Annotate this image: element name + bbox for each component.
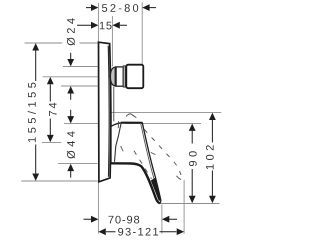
phantom dashed line B (open position left edge) [134,151,152,179]
dimension O24 [67,18,75,100]
handle crease line [115,123,122,162]
dimension 102 right [206,113,216,204]
dimension 70-98 bottom [84,216,178,224]
wire extension line E11 sleeve top (y=66.5) [63,66,98,68]
wire extension line E10 escutcheon bottom (y=181) [21,180,98,182]
handle base bottom edge thick [111,163,160,203]
wire extension line E1b left (x=98.4 bottom) [97,182,99,233]
wire extension line E2 (x=112.4) [111,16,113,66]
escutcheon back chamfer line [107,46,110,177]
dimension 155/155 [28,43,39,181]
wire extension line E8 bottom shared (y=203.5) [160,203,220,205]
washer band [123,66,125,87]
cartridge housing box [126,65,143,89]
pivot tick [117,121,119,128]
escutcheon plate side view [99,42,111,182]
hub collar line behind escutcheon [113,87,115,122]
wire extension line E14 74-bottom (y=142.4) [42,141,61,143]
dimension 52-80 top [86,4,156,12]
handle knob top edge [121,122,142,124]
wire extension line E6 knob top (y=123.4) [64,122,201,124]
wire extension line E5 phantom tip (x=184.1) [183,180,185,234]
wire extension line E13 cartridge axis (y=76.8) [43,76,98,78]
wire extension line E3 (x=142.2) [141,3,143,65]
wire extension line E9 escutcheon top (y=43) [25,42,98,44]
caret mark above knob [126,114,136,118]
wire extension line E12 sleeve bottom (y=86) [61,85,98,87]
handle detail tick t1 [121,146,124,151]
handle silhouette [111,123,161,203]
dimension 15 [77,22,127,30]
handle blade inner line [141,123,159,199]
wire extension line E15 handle base bottom (y=163.6) [58,163,98,165]
sleeve body B [116,67,123,86]
phantom dashed line A (open position right edge) [144,129,181,175]
dimension 90 right [189,124,197,204]
handle tip dark wedge [151,178,161,201]
dome bulge between escutcheon and sleeve [110,67,115,86]
wire extension line E1a left (x=98.4 top) [97,3,99,42]
dimension 93-121 bottom [98,228,184,236]
dimension 74 [47,77,57,142]
wire extension line E7 handle top (y=112.4) [110,111,221,113]
handle detail tick t3 [151,152,156,154]
wire extension line E4 handle tip (x=161.9) [161,205,163,234]
phantom tip arc [177,176,184,180]
dimension O44 [67,110,75,178]
